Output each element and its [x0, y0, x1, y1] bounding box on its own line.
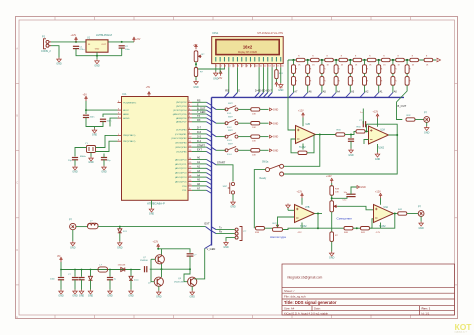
capacitor C1 input filter — [73, 46, 79, 48]
MCU right net labels group2 — [197, 127, 205, 152]
svg-text:+12V: +12V — [326, 175, 332, 178]
ground zener — [90, 280, 92, 289]
resistor R39 offset upper — [331, 183, 333, 186]
svg-text:GND: GND — [70, 247, 76, 250]
R-2R ladder vertical 2R resistor pairs — [292, 60, 412, 85]
ground contrast divider — [195, 77, 197, 81]
svg-text:Ready: Ready — [260, 178, 267, 180]
svg-text:P1: P1 — [42, 35, 46, 39]
svg-text:(ICP1)PB0: (ICP1)PB0 — [176, 129, 187, 131]
svg-text:TL062: TL062 — [300, 226, 307, 228]
svg-text:+12V: +12V — [297, 190, 303, 193]
svg-text:GND: GND — [273, 136, 279, 139]
wire U3B feedback — [370, 214, 395, 229]
resistor R31 LCD backlight — [275, 67, 277, 69]
capacitor offset filter — [332, 196, 347, 198]
+12V flag transistor stage — [157, 244, 159, 249]
svg-text:470u: 470u — [80, 49, 86, 51]
bus entry button row 4 — [212, 147, 217, 150]
resistor R41 — [361, 227, 370, 230]
wire Q1 collector — [161, 249, 163, 255]
wire TX to connector — [216, 229, 235, 231]
wire +12V rail to cap — [158, 249, 190, 253]
capacitor filter to ground — [350, 135, 352, 139]
svg-text:GND: GND — [230, 206, 236, 209]
op-amp U3A — [301, 198, 303, 205]
frame zone ticks left/right — [16, 47, 459, 319]
svg-text:(AIN0)PD6: (AIN0)PD6 — [176, 117, 187, 120]
svg-text:(ADC0)PC0: (ADC0)PC0 — [175, 158, 187, 161]
wire AGND pin — [110, 118, 118, 126]
svg-text:U2B: U2B — [306, 124, 311, 126]
svg-text:100n: 100n — [125, 49, 131, 51]
wire R3 to U2B inverting input — [365, 130, 369, 132]
svg-text:(INT1)PD3: (INT1)PD3 — [176, 106, 187, 108]
wire LCD pin3 contrast — [196, 64, 224, 69]
MCU right net labels group1 — [197, 100, 206, 123]
svg-text:+5V: +5V — [83, 94, 88, 97]
svg-text:2N3906: 2N3906 — [140, 260, 148, 262]
series inductor filter rail — [98, 267, 108, 272]
svg-text:10K: 10K — [252, 127, 256, 129]
svg-text:B_OUT: B_OUT — [398, 104, 407, 108]
wire button to resistor row 2 — [238, 122, 250, 124]
junction at regulator output — [121, 41, 123, 43]
svg-text:(INT0)PD2: (INT0)PD2 — [176, 102, 187, 104]
bus entry START — [212, 162, 217, 165]
svg-text:100n: 100n — [107, 121, 113, 123]
connector P3 external input jack — [70, 223, 76, 229]
pushbutton SW2 — [225, 106, 238, 111]
wire button to resistor row 4 — [238, 149, 250, 151]
bus entry button row 1 — [212, 106, 217, 109]
+12V flag op-amp U3B — [379, 193, 381, 198]
wire LCD pin4 RS to bus — [228, 67, 230, 92]
potentiometer offset — [330, 201, 334, 212]
potentiometer RV2 amplitude — [273, 228, 283, 232]
pushbutton START vertical — [228, 182, 235, 194]
capacitor C4 AREF — [100, 119, 106, 121]
bus vertical main — [211, 97, 213, 245]
wire Q1 emitter to junction — [161, 264, 163, 269]
ground diode — [130, 280, 132, 289]
connector P1 power input — [44, 39, 52, 49]
trimmer RV1 contrast — [194, 51, 198, 62]
wire emitter rail — [150, 268, 190, 270]
svg-text:GND: GND — [273, 149, 279, 152]
svg-text:Смещение: Смещение — [337, 216, 353, 220]
wire C2 to ground rail — [121, 48, 123, 56]
wire feedback to U2A output — [307, 135, 314, 153]
ground below jack — [72, 230, 74, 242]
wire U2B output to throw2 — [284, 135, 397, 174]
svg-text:(ADC5)PC5: (ADC5)PC5 — [175, 180, 187, 183]
bus entry button row 2 — [212, 120, 217, 123]
resistor lower contrast divider — [194, 68, 197, 77]
svg-text:Title: DDS signal generator: Title: DDS signal generator — [284, 300, 337, 305]
svg-text:GND: GND — [128, 295, 134, 298]
svg-text:START: START — [197, 144, 205, 147]
vertical wire small cap C upper — [362, 109, 364, 125]
regulator U1 LM78L05ACZ body — [86, 40, 108, 52]
svg-text:OUT: OUT — [101, 44, 106, 46]
svg-text:START: START — [217, 161, 226, 165]
svg-text:AREF: AREF — [123, 113, 129, 116]
wire resistor to ground row 3 — [260, 136, 269, 138]
svg-text:File: dds_sg.sch: File: dds_sg.sch — [284, 295, 306, 299]
svg-text:10K: 10K — [252, 141, 256, 143]
power flag filter rail — [60, 257, 62, 262]
resistor offset lower — [331, 212, 333, 232]
wire R38 to pot — [265, 227, 273, 229]
op-amp U3B — [380, 198, 382, 205]
wire to button SW4 — [216, 136, 226, 138]
ground op-amp U2B negative supply — [377, 144, 379, 153]
pushbutton SW3 — [225, 119, 238, 124]
connector P2 serial — [235, 227, 242, 241]
svg-text:D-5: D-5 — [197, 136, 202, 139]
junction rail taps — [60, 269, 132, 271]
svg-text:GND: GND — [156, 296, 162, 299]
wires resonator to MCU XTAL pins — [96, 135, 118, 147]
resistor R42 output — [398, 212, 407, 215]
svg-text:TX: TX — [197, 115, 201, 118]
svg-text:PB7(XTAL2): PB7(XTAL2) — [123, 140, 135, 143]
bus entries MCU right pins — [207, 102, 212, 193]
svg-text:(ADC3)PC3: (ADC3)PC3 — [175, 172, 187, 175]
wire resistor to ground row 2 — [260, 122, 269, 124]
svg-text:KiCad E.D.A. kicad 4.0.0-rc1-: KiCad E.D.A. kicad 4.0.0-rc1-stable — [284, 311, 328, 315]
bus entry button row 3 — [212, 134, 217, 137]
wire switch common down to amplitude — [254, 170, 265, 229]
wire pot wiper to U3A input — [278, 217, 295, 227]
ground below DAC output connector — [426, 122, 428, 126]
resistor R40 — [344, 227, 353, 230]
svg-text:E: E — [16, 315, 18, 319]
wire regulator ground pin — [96, 52, 98, 56]
svg-text:GND: GND — [223, 246, 229, 249]
GND flag offset cap — [357, 186, 360, 189]
wire jack to inductor — [76, 226, 88, 228]
svg-text:GND: GND — [375, 158, 381, 161]
svg-text:GND: GND — [107, 295, 113, 298]
svg-text:16x2: 16x2 — [243, 44, 253, 49]
wire U3A feedback down — [317, 214, 319, 229]
wire R32 to output connector — [415, 119, 424, 121]
svg-text:GND: GND — [117, 247, 123, 250]
svg-text:U2A: U2A — [381, 129, 386, 132]
+5V below backlight resistor — [275, 79, 277, 83]
wire button to resistor row 1 — [238, 108, 250, 110]
capacitor bottom-left 2b — [81, 270, 83, 277]
resistor R38 amplitude input — [256, 227, 265, 230]
LCD pin names inside body — [216, 57, 281, 62]
svg-text:GND: GND — [56, 63, 62, 66]
svg-text:DIS1: DIS1 — [213, 31, 219, 35]
svg-text:+12V: +12V — [373, 111, 379, 114]
svg-text:PC6(RESET): PC6(RESET) — [123, 102, 136, 104]
svg-text:Display MT-16S2R: Display MT-16S2R — [238, 52, 257, 54]
ground at LCD pin 16 — [280, 67, 282, 83]
wire LCD pin6 E to bus — [236, 67, 238, 92]
wire U2A output — [316, 134, 337, 136]
svg-text:+12V: +12V — [298, 110, 304, 113]
capacitor bottom-left 2 pair — [74, 270, 76, 277]
svg-text:SW?: SW? — [228, 103, 234, 105]
svg-text:(SS/OC1B)PB2: (SS/OC1B)PB2 — [171, 138, 187, 140]
svg-text:(OC1A)PB1: (OC1A)PB1 — [175, 133, 187, 136]
svg-text:(MISO)PB4: (MISO)PB4 — [175, 147, 187, 149]
+12V flag op-amp U3A — [301, 193, 303, 198]
capacitor C2 output filter — [119, 46, 125, 48]
svg-text:D-7: D-7 — [268, 90, 273, 93]
wire resistor to ground row 4 — [260, 149, 269, 151]
ground flag row 2 — [270, 122, 273, 125]
svg-text:SW?: SW? — [228, 117, 234, 119]
feedback capacitor U2B — [366, 124, 368, 131]
svg-text:10K: 10K — [252, 154, 256, 156]
svg-text:EXT: EXT — [205, 222, 210, 226]
wire START net — [216, 165, 233, 182]
svg-text:Size: A4: Size: A4 — [284, 307, 295, 311]
ground cap 2 — [74, 280, 76, 290]
+5V power flag above MCU — [148, 92, 150, 97]
transistor Q1 — [155, 255, 164, 264]
svg-text:ATMEGA8A-P: ATMEGA8A-P — [147, 202, 165, 206]
svg-text:+12V: +12V — [375, 190, 381, 193]
wire AVCC to MCU — [86, 101, 118, 110]
+12V flag op-amp U2B — [376, 114, 378, 119]
svg-text:LM78L05ACZ: LM78L05ACZ — [96, 33, 112, 37]
svg-text:10K: 10K — [335, 192, 339, 194]
svg-text:S1.2: S1.2 — [227, 127, 232, 129]
ground at P1 — [57, 58, 62, 63]
R-2R ladder node junctions — [292, 59, 408, 61]
pushbutton SW5 — [225, 147, 238, 152]
MCU left pin stubs and numbers — [118, 101, 122, 142]
+5V at LCD pin 2 — [219, 67, 221, 71]
svg-text:100n: 100n — [50, 279, 56, 281]
inductor L1 — [88, 223, 99, 229]
svg-text:AVCC: AVCC — [123, 109, 129, 112]
ground below regulator — [96, 56, 98, 60]
wire U2A output to switch throw1 — [284, 135, 320, 167]
svg-text:GND: GND — [58, 295, 64, 298]
svg-text:GND: GND — [329, 257, 335, 260]
series capacitor audio rail — [145, 266, 147, 272]
filter rail wire — [61, 262, 141, 270]
title block outline — [282, 264, 455, 315]
wire R40 to R41 — [353, 227, 361, 229]
MCU right pin names inside body — [171, 102, 187, 192]
series diode 1N4148 — [121, 268, 125, 272]
svg-text:MT-16S2H-2YLG-3TN: MT-16S2H-2YLG-3TN — [257, 31, 283, 35]
wire START button to ground — [232, 194, 234, 200]
ground flag row 3 — [270, 135, 273, 138]
wire feedback cap to U2B output — [367, 124, 398, 135]
wire ladder left end down to U2A — [288, 60, 296, 130]
transistor Q3 — [188, 277, 197, 286]
diode vertical bottom-left — [130, 270, 132, 277]
svg-text:TL062: TL062 — [378, 147, 385, 149]
svg-text:10K: 10K — [252, 113, 256, 115]
resistor pulldown row 4 — [251, 149, 260, 152]
svg-text:+5V: +5V — [218, 77, 223, 80]
svg-text:КОТ: КОТ — [455, 322, 473, 332]
junction at zener — [119, 226, 121, 228]
svg-text:GND: GND — [95, 49, 100, 51]
svg-text:Sheet: /: Sheet: / — [284, 289, 295, 293]
ground serial connector — [224, 241, 229, 246]
wire pot right to feedback rail — [283, 228, 319, 229]
ground flag row 4 — [270, 149, 273, 152]
ground flag row 1 — [270, 108, 273, 111]
resistor pulldown row 3 — [251, 135, 260, 138]
capacitor C3 AVCC — [85, 109, 87, 111]
svg-text:GND: GND — [79, 295, 85, 298]
wire to button SW2 — [216, 108, 226, 110]
op-amp U3B negative supply — [380, 223, 382, 229]
resistor pulldown row 1 — [251, 108, 260, 111]
bus horizontal to DAC ladder — [212, 96, 405, 98]
R-2R ladder bit wires labels and bus entries — [289, 85, 397, 97]
wire to button SW5 — [216, 149, 226, 151]
ground resonator cap C6 — [74, 160, 76, 166]
svg-text:(ADC4)PC4: (ADC4)PC4 — [175, 176, 187, 179]
resistor R3 filter — [352, 131, 356, 134]
svg-text:RS: RS — [197, 100, 201, 103]
wire Q3 collector to V_GEN bus entry — [194, 249, 204, 279]
svg-text:8MHz: 8MHz — [80, 156, 86, 158]
wire offset wiper to U3B input — [337, 206, 373, 210]
op-amp U2A — [302, 118, 304, 127]
junction at +12V input node — [75, 41, 77, 43]
svg-text:GND: GND — [190, 296, 196, 299]
resistor R32 DAC output — [406, 118, 415, 121]
ground below Q2 — [158, 286, 160, 290]
wire button to resistor row 3 — [238, 136, 250, 138]
wire Q1 base — [151, 258, 155, 260]
transistor Q2 — [161, 269, 163, 277]
LCD display body — [212, 37, 284, 64]
+12V flag op-amp U2A — [302, 113, 304, 118]
ground flag U3A inverting input — [286, 204, 291, 209]
ground cap 1 — [60, 280, 62, 290]
svg-text:D: D — [16, 248, 18, 252]
switch SW1a selector — [266, 164, 284, 176]
svg-text:GND: GND — [273, 122, 279, 125]
svg-text:+12V: +12V — [153, 240, 159, 243]
R-2R ladder output terminator glyph — [437, 58, 441, 62]
svg-text:Rev: 1: Rev: 1 — [422, 307, 431, 311]
svg-text:100n: 100n — [90, 117, 96, 119]
wire to button SW3 — [216, 122, 226, 124]
svg-text:U?B: U?B — [305, 207, 310, 209]
ground below zener — [119, 233, 121, 241]
junction contrast node — [195, 62, 197, 68]
op-amp U2B — [377, 119, 379, 127]
connector P5 generator output — [418, 211, 424, 217]
svg-text:-12V: -12V — [376, 232, 381, 234]
svg-text:+12V: +12V — [71, 34, 77, 37]
svg-text:EXT: EXT — [197, 149, 202, 152]
ground resonator cap C7 — [103, 160, 105, 166]
svg-text:(AIN1)PD7: (AIN1)PD7 — [176, 121, 187, 124]
bus entry EXT — [206, 227, 212, 231]
MCU left pin names — [123, 102, 136, 143]
svg-text:B_OUT: B_OUT — [197, 107, 206, 110]
wire serial connector ground pin — [226, 238, 235, 241]
svg-text:B: B — [16, 114, 18, 118]
capacitor bottom-left 3 — [109, 270, 111, 277]
wire U2A inverting input loop — [291, 139, 298, 153]
wire U3A upper input — [288, 209, 295, 211]
wire R41 to U3B inverting input — [370, 219, 374, 228]
ground below output connector — [420, 216, 422, 221]
svg-text:SW?: SW? — [228, 130, 234, 132]
svg-text:GND: GND — [72, 295, 78, 298]
ground decoupling caps — [86, 118, 103, 127]
wire C1 to ground rail — [76, 49, 122, 56]
svg-text:AGND: AGND — [123, 117, 130, 120]
+5V for contrast divider — [195, 45, 197, 50]
wire AREF node — [103, 114, 118, 117]
svg-text:GND: GND — [88, 295, 94, 298]
resonator center pin ground — [90, 153, 92, 157]
wire inductor to zener node — [98, 226, 206, 228]
svg-text:V_GEN: V_GEN — [207, 247, 216, 251]
wire R2 to junction — [345, 134, 352, 136]
ladder terminator wire to B_OUT — [397, 85, 408, 119]
svg-text:-12V: -12V — [297, 232, 302, 234]
svg-text:GND: GND — [424, 132, 430, 135]
wire U3A output rail to R40 — [318, 227, 344, 229]
svg-text:GND: GND — [101, 171, 107, 174]
svg-text:E: E — [238, 89, 240, 93]
MCU right pin stubs wires and numbers — [188, 101, 207, 191]
ground filter cap — [349, 149, 354, 154]
connector P4 DAC output — [424, 117, 430, 123]
svg-text:S1.4: S1.4 — [227, 154, 232, 156]
svg-text:S1.1: S1.1 — [227, 113, 232, 115]
zener bottom-left — [90, 270, 92, 277]
svg-text:GND: GND — [348, 154, 354, 157]
svg-text:A: A — [16, 47, 18, 51]
svg-text:D-7: D-7 — [197, 127, 202, 130]
+5V flag AVCC decoupling — [85, 96, 87, 101]
svg-text:(ADC2)PC2: (ADC2)PC2 — [175, 167, 187, 170]
svg-text:(AIN0/T1)PD5: (AIN0/T1)PD5 — [173, 113, 188, 116]
ground below Q3 — [191, 286, 193, 290]
capacitor bottom-left 1 — [60, 270, 62, 277]
bus entry RX — [212, 231, 217, 234]
svg-text:+5V: +5V — [193, 44, 198, 47]
svg-text:2N-BC337: 2N-BC337 — [174, 282, 185, 284]
svg-text:D-6: D-6 — [197, 131, 202, 134]
wire R39 to offset pot — [331, 195, 333, 200]
resonator load capacitor C6 — [75, 148, 87, 157]
svg-text:T_GEN: T_GEN — [197, 111, 206, 114]
wire P1 pin2 to ground — [51, 46, 59, 58]
frame zone ticks top/bottom — [55, 17, 411, 319]
svg-text:S1.3: S1.3 — [227, 140, 232, 142]
wire U2B noninverting input — [364, 140, 369, 145]
feedback resistor U2A — [298, 151, 307, 154]
svg-text:C: C — [16, 181, 18, 185]
svg-text:RX: RX — [197, 119, 201, 122]
svg-text:Date:: Date: — [314, 307, 321, 311]
wire U3A output — [315, 213, 323, 215]
